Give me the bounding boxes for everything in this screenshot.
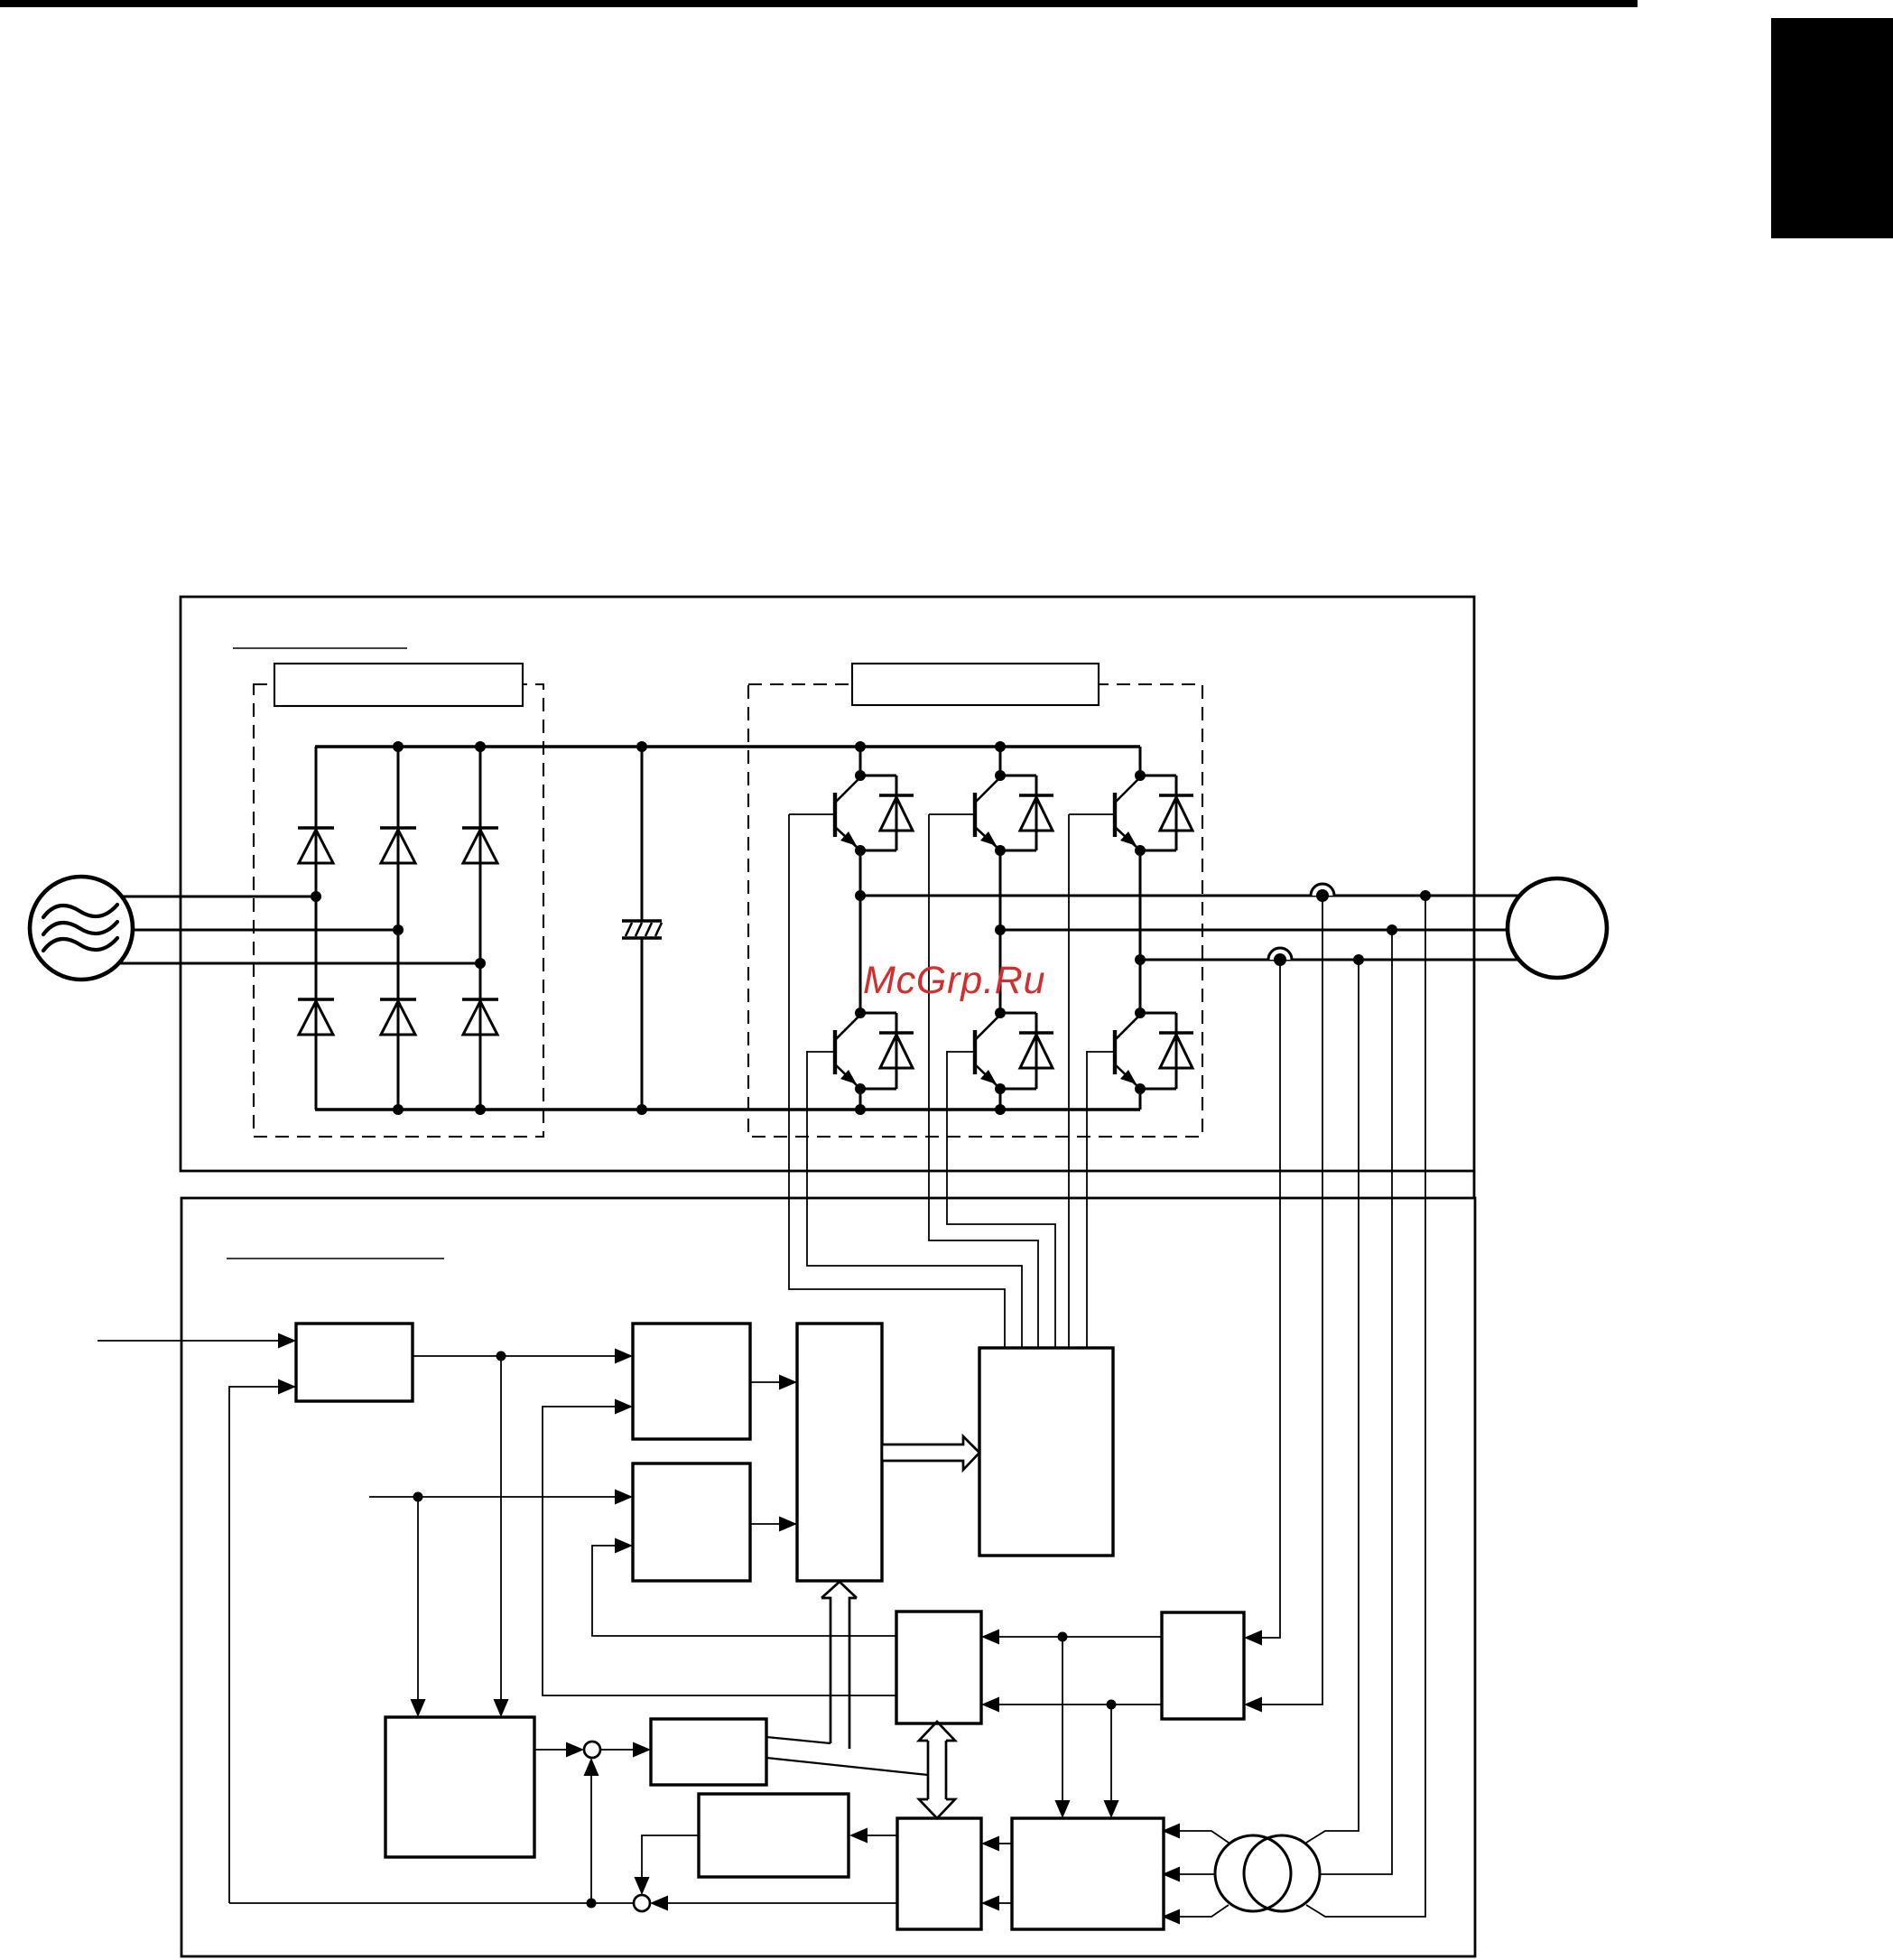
wire: feedback up to A1: [229, 1387, 278, 1903]
wire: rectifier leg 3: [479, 747, 482, 1110]
wire: A2 to T: [750, 1381, 779, 1383]
wire: tee2 down to D1: [1110, 1705, 1112, 1800]
side tab (scan blackout): [1771, 18, 1893, 238]
transistor Q3 (upper IGBT with freewheel diode): [1113, 793, 1117, 837]
transistor Q5 (lower IGBT with freewheel diode): [973, 1030, 977, 1074]
arrow: into A2 input 1: [615, 1349, 633, 1364]
arrow: into B1 input 2: [981, 1697, 999, 1713]
node: A1 output tee: [496, 1352, 506, 1361]
node: leg3 phase tap: [1135, 954, 1146, 965]
arrow: into E top 1: [411, 1699, 426, 1717]
wire: C1 to S2: [668, 1902, 897, 1904]
node: rectifier R input: [311, 891, 321, 902]
block A2 accel/decel computer: [633, 1324, 750, 1439]
wire: PT to D1 top: [1180, 1831, 1229, 1843]
diode D1: [298, 826, 334, 829]
motor M: [1508, 878, 1607, 978]
block T voltage/frequency controller: [797, 1324, 882, 1581]
control section box: [181, 1198, 1475, 1956]
arrow: CT-W into current detector: [1244, 1630, 1262, 1646]
diode D5: [380, 998, 416, 1000]
wire: A3 to T: [750, 1523, 779, 1525]
wire: gate drive Q4: [807, 1051, 1022, 1348]
wire: output phase W: [1140, 959, 1519, 961]
header bar (scan blackout): [0, 0, 1638, 7]
node: -bus junction x1108: [995, 1104, 1006, 1115]
block A3 V/f pattern: [633, 1463, 750, 1581]
wire: tee1 down to D1: [1062, 1637, 1063, 1800]
wire: S1 to F: [600, 1749, 633, 1751]
AC source G1: [30, 877, 133, 980]
arrow: into C1 right 1: [981, 1836, 999, 1852]
wire: W voltage feedback: [1306, 960, 1359, 1843]
current sensor CT-U: [1311, 884, 1334, 896]
arrow: into F: [633, 1742, 651, 1758]
node: +bus junction x711: [636, 741, 647, 752]
transistor Q2 (upper IGBT with freewheel diode): [973, 793, 977, 837]
node: rectifier S input: [393, 924, 404, 935]
node: reference tee: [413, 1492, 423, 1502]
wire: feedback to A2: [543, 1407, 896, 1695]
node: W voltage tap: [1353, 954, 1364, 965]
wire: output phase U: [860, 895, 1519, 897]
wire: feedback up to S1: [590, 1775, 592, 1903]
node: leg1 phase tap: [855, 890, 866, 901]
diode D6: [462, 998, 498, 1000]
wire: feedback to A3: [592, 1546, 896, 1636]
transistor Q4 (lower IGBT with freewheel diode): [833, 1030, 837, 1074]
summing point S1: [584, 1742, 600, 1758]
block C1 communication unit: [897, 1818, 981, 1929]
bus arrow: F up into T: [821, 1582, 857, 1749]
transistor Q6 (lower IGBT with freewheel diode): [1113, 1030, 1117, 1074]
arrow: into A2 input 2: [615, 1399, 633, 1415]
svg-text:McGrp.Ru: McGrp.Ru: [863, 959, 1045, 1002]
wire: external frequency command: [97, 1340, 278, 1342]
inverter dashed box: [748, 684, 1202, 1137]
wire: gate drive Q2: [929, 814, 1038, 1348]
arrow: into B1 input 1: [981, 1630, 999, 1645]
node: feedback tee: [587, 1899, 597, 1909]
node: -bus junction x441: [393, 1104, 404, 1115]
wire: DC bus positive: [315, 745, 1140, 748]
wire: E to summing point: [534, 1749, 566, 1751]
node: tee on line 2: [1107, 1700, 1117, 1710]
wire: D1 to C1 line 1: [999, 1843, 1012, 1844]
node: -bus junction x953: [855, 1104, 866, 1115]
arrow: into D1 right 3: [1162, 1909, 1180, 1925]
node: +bus junction x441: [393, 741, 404, 752]
arrow: into T input 1: [779, 1375, 797, 1390]
diode D2: [380, 826, 416, 829]
inverter label box: [852, 664, 1099, 705]
wire: C1 to D2: [868, 1835, 897, 1836]
wire: B2 to B1 line 1: [999, 1636, 1162, 1638]
wire: rectifier leg 2: [397, 747, 400, 1110]
block B1 computing unit: [896, 1612, 981, 1723]
wire: AC phase T: [120, 962, 480, 965]
capacitor C1: [641, 747, 644, 921]
block F base block: [651, 1719, 766, 1785]
wire: PT to D1 mid: [1180, 1873, 1214, 1875]
bus arrow: T to gate driver: [882, 1436, 979, 1470]
wire: D2 down to S2: [642, 1835, 699, 1877]
block A1 frequency setting: [296, 1324, 413, 1401]
node: leg2 phase tap: [995, 924, 1006, 935]
diode D3: [462, 826, 498, 829]
block D1 voltage detector: [1012, 1818, 1164, 1929]
wire: output phase V: [1000, 929, 1508, 932]
arrow: into T input 2: [779, 1517, 797, 1532]
arrow: into A3 input 1: [615, 1490, 633, 1505]
power section box: [181, 597, 1474, 1171]
arrow: into S2 top: [635, 1877, 650, 1895]
block E protection logic: [385, 1717, 534, 1857]
wire: A1 output to A2: [413, 1355, 615, 1357]
node: +bus junction x1108: [995, 741, 1006, 752]
wire: inverter leg 2 bottom: [999, 1089, 1002, 1110]
wire: feedback main line: [229, 1902, 634, 1904]
wire: inverter leg 3 middle: [1139, 850, 1142, 1013]
wire: link between box edges: [1473, 1171, 1476, 1198]
arrow: into S1 bottom: [584, 1758, 599, 1776]
wire: gate drive Q3: [1068, 814, 1070, 1348]
arrow: into D1 top 1: [1055, 1800, 1071, 1818]
wire: gate drive Q6: [1086, 1051, 1088, 1348]
arrow: into D1 right 2: [1162, 1867, 1180, 1882]
wire: A1 tee down to E: [500, 1356, 502, 1699]
wire: CT-W signal: [1262, 960, 1280, 1638]
wire: DC bus negative: [315, 1108, 1140, 1110]
power section title line: [233, 647, 407, 649]
block B2 current detector: [1162, 1612, 1244, 1719]
node: tee on line 1: [1058, 1632, 1068, 1642]
node: +bus junction x953: [855, 741, 866, 752]
wire: inverter leg 2 top: [999, 747, 1002, 776]
arrow: CT-U into current detector: [1244, 1697, 1262, 1713]
arrow: into D1 top 2: [1104, 1800, 1119, 1818]
block G gate driver: [979, 1348, 1113, 1556]
wire: AC phase R: [122, 896, 316, 898]
arrow: into D2: [849, 1828, 868, 1844]
wire: inverter leg 3 bottom: [1139, 1089, 1142, 1110]
converter label box: [274, 664, 523, 706]
arrow: into summing point 1: [566, 1742, 584, 1758]
arrow: into A1 input 2: [278, 1379, 296, 1395]
arrow: into C1 right 2: [981, 1896, 999, 1911]
wire: AC phase S: [132, 929, 398, 932]
arrow: into A3 input 2: [615, 1538, 633, 1554]
node: -bus junction x711: [636, 1104, 647, 1115]
arrow: command into A1: [278, 1333, 296, 1349]
wire: D1 to C1 line 2: [999, 1902, 1012, 1904]
converter dashed box: [254, 684, 543, 1137]
wire: inverter leg 1 bottom: [859, 1089, 862, 1110]
node: +bus junction x532: [475, 741, 486, 752]
summing point S2: [634, 1895, 650, 1911]
arrow: into E top 2: [494, 1699, 509, 1717]
node: -bus junction x532: [475, 1104, 486, 1115]
wire: gate drive Q5: [947, 1051, 1055, 1348]
wire: reference tee down to E: [417, 1497, 419, 1699]
wire: inverter leg 3 top: [1139, 747, 1142, 776]
wire: PT to D1 bottom: [1180, 1905, 1229, 1917]
wire: inverter leg 1 top: [859, 747, 862, 776]
wire: U voltage feedback: [1306, 896, 1425, 1917]
control section title line: [227, 1258, 444, 1259]
wire: inverter leg 1 middle: [859, 850, 862, 1013]
diode D4: [298, 998, 334, 1000]
arrow: into D1 right 1: [1162, 1824, 1180, 1839]
wire: inverter leg 2 middle: [999, 850, 1002, 1013]
node: rectifier T input: [475, 958, 486, 969]
bus arrow: B1-C1 bidirectional: [919, 1722, 955, 1818]
block D2 display unit: [699, 1794, 849, 1877]
wire: B2 to B1 line 2: [999, 1704, 1162, 1705]
wire: V voltage feedback: [1320, 930, 1392, 1874]
wire: rectifier leg 1: [315, 747, 318, 1110]
wire: F bus slant upper: [766, 1737, 831, 1743]
transformer PT: [1215, 1835, 1291, 1911]
transistor Q1 (upper IGBT with freewheel diode): [833, 793, 837, 837]
node: V voltage tap: [1387, 924, 1397, 935]
current sensor CT-W: [1268, 948, 1292, 960]
arrow: into S2 right: [650, 1896, 668, 1911]
wire: F bus slant lower: [766, 1758, 928, 1775]
node: U voltage tap: [1420, 890, 1431, 901]
wire: CT-U signal: [1262, 896, 1322, 1705]
wire: gate drive Q1: [789, 814, 1005, 1348]
wire: reference line to A3: [369, 1496, 615, 1498]
